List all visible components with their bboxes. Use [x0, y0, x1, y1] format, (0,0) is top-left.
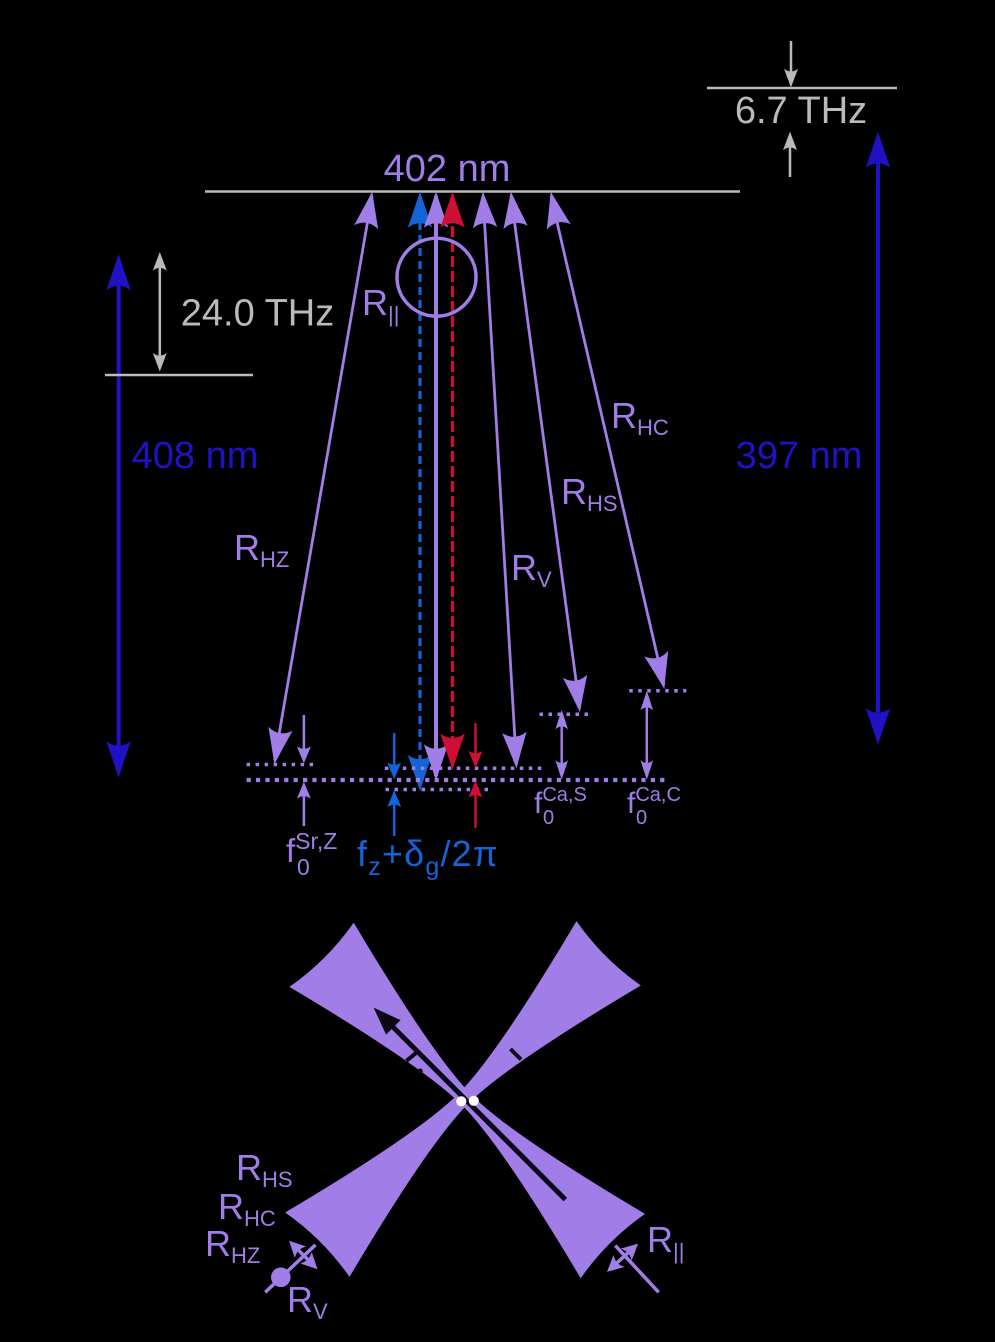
double arrow 408 nm (left dark blue) [107, 256, 130, 777]
arrow R_V beam [472, 192, 528, 767]
double arrow f0 Ca,S [556, 712, 567, 779]
ion white dot 1 [456, 1096, 466, 1106]
wavefront tick right beam [511, 1049, 522, 1060]
small dark dot mark [418, 1069, 423, 1074]
beam bowtie A (top-left to bottom-right) [289, 923, 645, 1279]
beam bowtie B (top-right to bottom-left) [285, 921, 641, 1277]
wavefront tick left beam [407, 1051, 420, 1061]
level line 6.7 THz (top right) [707, 87, 897, 90]
svg-text:397 nm: 397 nm [736, 435, 863, 477]
level line left (402 minus 24 THz) [105, 374, 253, 377]
indicator arrow purple up (f0 Sr,Z) [298, 783, 310, 826]
dark k-vector arrow along beam A [368, 1002, 566, 1200]
level line 402 nm [205, 190, 740, 193]
ellipse around co-propagating beams [397, 238, 476, 316]
svg-text:24.0 THz: 24.0 THz [181, 293, 334, 335]
dotted line blue level [386, 788, 490, 792]
arrow purple solid center [425, 193, 448, 779]
ion white dot 2 [469, 1096, 479, 1106]
dotted line R_HC level [629, 689, 686, 693]
arrow blue dashed (R_parallel blue component) [409, 193, 432, 790]
R_V polarization symbol: beam line [265, 1245, 315, 1293]
R_V polarization double arrow [285, 1237, 322, 1274]
R_V polarization dot [271, 1268, 291, 1288]
indicator arrow red down [470, 723, 482, 767]
double arrow 24.0 THz (gray) [154, 253, 166, 370]
double arrow 397 nm (right dark blue) [867, 133, 890, 743]
dotted line right mid (R_V, red level) [385, 767, 546, 771]
dotted line R_HS level [540, 713, 591, 717]
arrow R_HS beam [500, 192, 591, 713]
R_par polarization symbol: beam line [615, 1246, 658, 1293]
dotted line Sr,Z upper [247, 763, 318, 767]
indicator arrow red up [470, 782, 482, 828]
dotted line main long [247, 778, 670, 782]
indicator arrow purple down (f0 Sr,Z) [298, 715, 310, 762]
arrow gray down to 6.7 line [785, 41, 797, 86]
svg-text:408 nm: 408 nm [132, 435, 259, 477]
double arrow f0 Ca,C [641, 693, 652, 779]
svg-text:402 nm: 402 nm [384, 148, 511, 190]
R_par polarization double arrow [603, 1239, 642, 1276]
arrow gray up to 397 tip level [784, 133, 796, 177]
indicator arrow blue down (f_z) [388, 733, 400, 778]
arrow R_HC beam [540, 190, 675, 690]
arrow red dashed [441, 193, 464, 768]
indicator arrow blue up (f_z) [388, 792, 400, 837]
arrow R_HZ beam [263, 191, 383, 765]
svg-text:6.7 THz: 6.7 THz [735, 90, 867, 132]
